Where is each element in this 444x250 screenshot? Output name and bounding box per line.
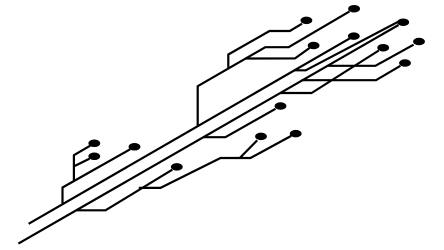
pad X1 [255, 133, 267, 141]
wire fork branch to P9 (fork off trace B, horizontal jog) [203, 109, 276, 137]
pad Y2 [88, 153, 100, 161]
pad P10 [129, 143, 141, 151]
pad X2 [290, 130, 302, 138]
wire branch T1 (fork off trace A to pad P4) [294, 21, 400, 71]
wire riser branch to P10 (vertical riser off trace A) [63, 149, 131, 204]
wire fork branch to P8 (fork off trace B, horizontal jog) [302, 66, 401, 80]
pad P8 [399, 59, 411, 67]
wire branch beta (fork off alpha to pad P2) [245, 48, 309, 59]
pad Y1 [88, 140, 100, 148]
wire stub to Y2 (branch off Y1 riser) [74, 159, 90, 167]
pad P2 [308, 42, 320, 50]
wire fork branch to P6 (fork off trace B, horizontal jog) [280, 51, 379, 94]
pad P9 [275, 102, 287, 110]
wire trace B (main bus 2, lower-left tip to pad P4) [18, 25, 398, 244]
wire riser branch to Y1 (vertical riser off P10 feeder) [74, 146, 90, 181]
pad P6 [377, 44, 389, 52]
wire stub to X1 (45-degree stub off F horizontal to pad X1) [240, 140, 257, 158]
wire fork branch to P11 (fork off trace B, horizontal jog) [77, 170, 173, 211]
pad P11 [171, 163, 183, 171]
wire riser branch alpha (vertical riser off trace A, jog, to pad P3) [198, 11, 350, 126]
pad P4 [397, 18, 409, 26]
wire trace A (main bus 1, lower-left tip to pad P5) [29, 36, 354, 224]
pad P7 [413, 38, 425, 46]
pad P3 [348, 5, 360, 13]
wire fork branch to P7 (fork off trace B, horizontal jog) [327, 45, 413, 66]
pad P5 [348, 32, 360, 40]
wire branch to P1 (vertical riser off alpha, jog, stub to pad P1) [228, 24, 302, 69]
pad P1 [301, 17, 313, 25]
wire fork branch F (fork off P11 branch, jog, to pad X2) [139, 136, 291, 188]
